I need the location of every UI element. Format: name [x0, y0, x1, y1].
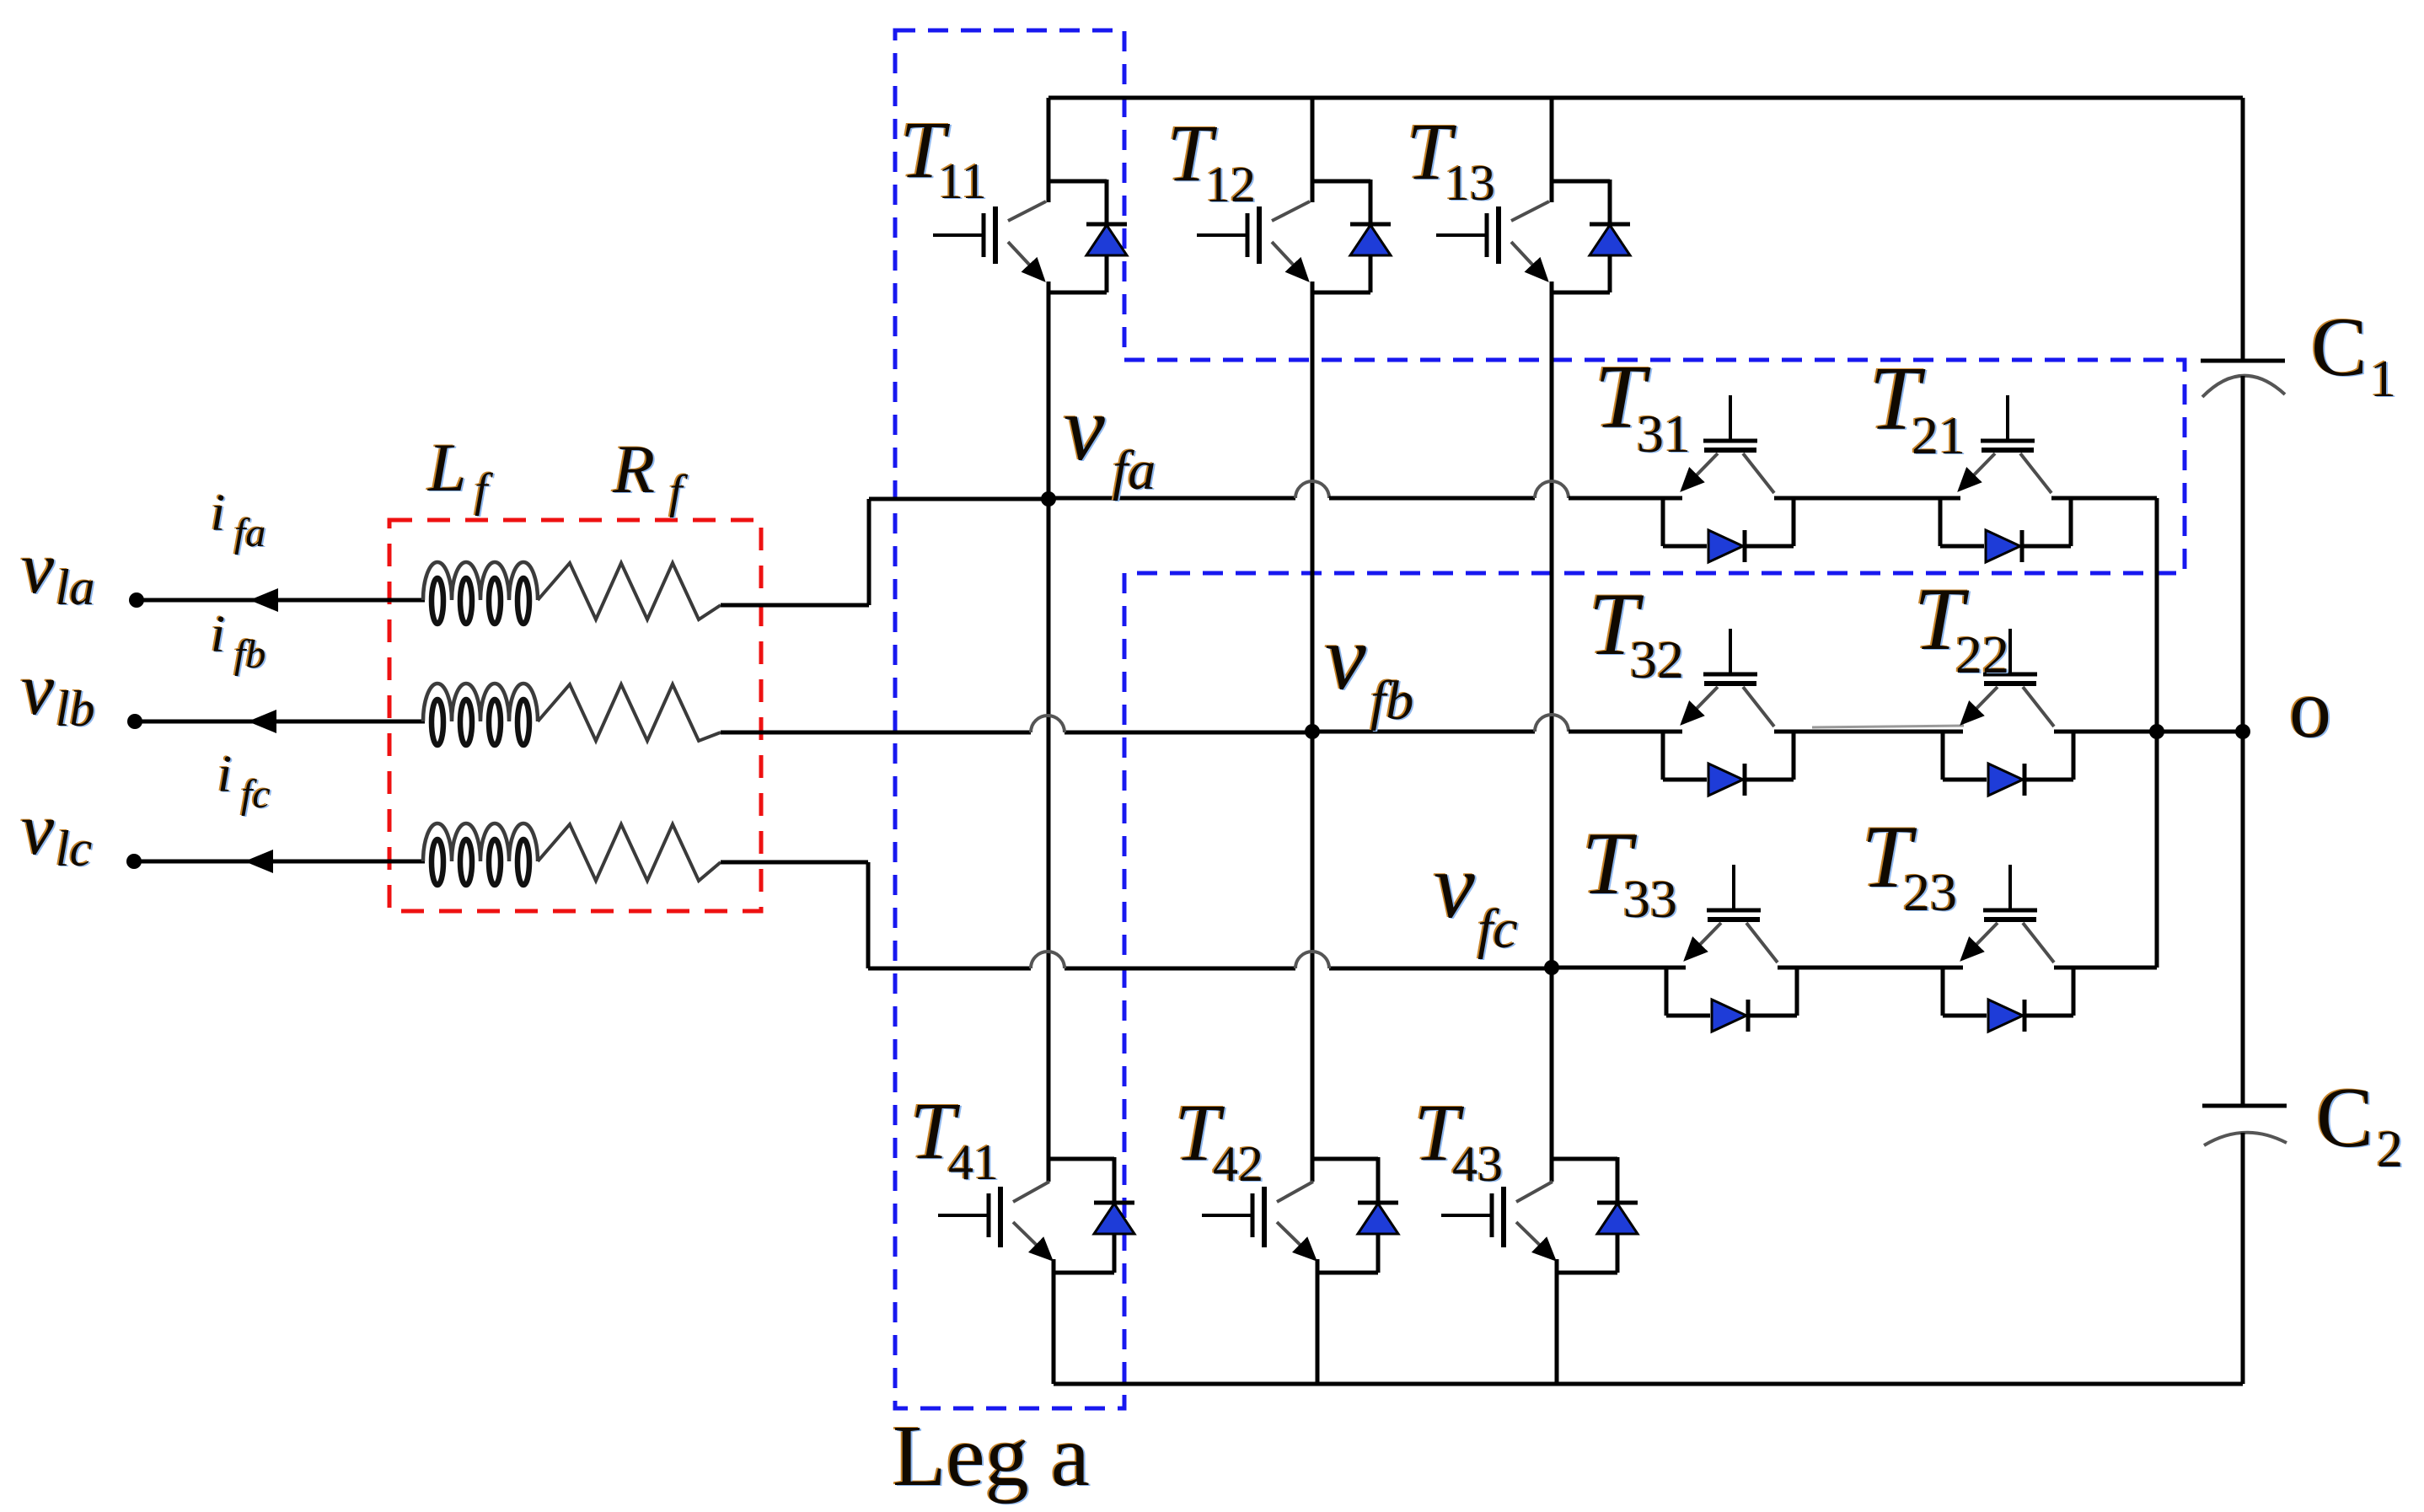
transistor T41 igbt body: [938, 1182, 1051, 1259]
transistor T31 body: [1682, 395, 1774, 493]
transistor T13 freewheeling diode: [1590, 224, 1630, 292]
transistor T11 igbt body: [933, 201, 1046, 280]
diode D32: [1708, 764, 1745, 796]
label v_fa: [1062, 376, 1157, 502]
transistor T21 body: [1960, 395, 2051, 493]
label L_f: [426, 428, 496, 517]
transistor T12 freewheeling diode: [1350, 224, 1391, 292]
label T31: [1593, 346, 1692, 464]
transistor T11 freewheeling diode: [1086, 224, 1127, 292]
wire right rail middle: [2241, 376, 2245, 1106]
diode D31: [1708, 530, 1745, 562]
wire phase c to vfc: [868, 967, 1545, 971]
wire phase a to vfa: [721, 499, 1048, 605]
node v_lb terminal: [127, 714, 142, 729]
node v_lc terminal: [126, 854, 142, 869]
wire T23 output to right column: [2054, 966, 2157, 970]
wire hop phase c over leg b: [1295, 952, 1329, 968]
node junction right column: [2149, 724, 2164, 739]
transistor T43 wire emitter join: [1557, 1271, 1617, 1275]
label T13: [1405, 105, 1497, 212]
wire T21 diode bracket: [1940, 498, 2071, 546]
node v_fc: [1544, 960, 1559, 975]
diode D21: [1986, 530, 2022, 562]
transistor T12 wire emitter join: [1312, 291, 1370, 295]
label T43: [1413, 1086, 1504, 1193]
transistor T42 wire collector stub: [1312, 1157, 1378, 1161]
label T11: [898, 104, 989, 210]
diode D23: [1988, 1000, 2024, 1032]
transistor T12 wire diode cathode lead: [1369, 180, 1373, 224]
transistor T23 body: [1962, 865, 2054, 962]
label node o: [2287, 661, 2333, 756]
wire phase a with current arrow: [143, 588, 425, 612]
transistor T41 freewheeling diode: [1094, 1203, 1134, 1273]
inductor Lf phase c: [423, 823, 538, 885]
transistor T11 wire diode cathode lead: [1105, 180, 1109, 224]
node v_fb: [1305, 724, 1320, 739]
transistor T13 igbt body: [1436, 201, 1549, 280]
transistor T13 wire collector drop: [1550, 98, 1554, 202]
node v_fa: [1041, 491, 1056, 507]
transistor T11 wire collector stub: [1048, 180, 1107, 184]
wire vfc row segment 1: [1552, 966, 1686, 970]
node v_la terminal: [129, 592, 144, 608]
transistor T42 igbt body: [1202, 1182, 1315, 1259]
label T21: [1868, 348, 1967, 466]
wire hop phase b over leg a: [1031, 716, 1065, 732]
resistor Rf phase b: [538, 684, 721, 741]
diode D22: [1988, 764, 2024, 796]
capacitor C1: [2201, 361, 2285, 397]
wire o row to rail: [2054, 730, 2243, 734]
wire right rail upper: [2241, 98, 2245, 361]
resistor Rf phase a: [538, 563, 721, 619]
wire T33 diode bracket: [1666, 968, 1797, 1016]
wire leg c emitter to vfc and T43: [1550, 281, 1554, 1182]
label C2: [2314, 1070, 2405, 1179]
wire bottom dc rail: [1054, 1382, 2243, 1386]
label v_lb: [19, 648, 97, 737]
wire hop phase c over leg a: [1031, 952, 1065, 968]
wire vfa row segment 2: [1329, 496, 1535, 501]
transistor T41 wire collector stub: [1048, 1157, 1114, 1161]
inductor Lf phase a: [423, 562, 538, 624]
transistor T42 wire emitter join: [1317, 1271, 1378, 1275]
label v_fc: [1432, 834, 1520, 961]
wire vfa row segment 4: [1774, 496, 1960, 501]
transistor T32 body: [1682, 629, 1774, 727]
transistor T41 wire emitter join: [1054, 1271, 1114, 1275]
label T33: [1580, 813, 1679, 930]
wire overlap artifact: [1812, 726, 1964, 727]
label T12: [1166, 107, 1258, 213]
blue dashed box Leg a with T31 T21 row extension: [895, 30, 2185, 1408]
label v_fb: [1323, 605, 1415, 732]
wire T22 diode bracket: [1943, 732, 2073, 780]
wire leg a bottom: [1052, 1259, 1056, 1384]
wire vfb row segment 3: [1774, 730, 1963, 734]
wire T32 diode bracket: [1663, 732, 1794, 780]
wire hop vfb row over leg c: [1535, 715, 1569, 732]
transistor T43 wire collector stub: [1552, 1157, 1617, 1161]
inductor Lf phase b: [423, 684, 538, 745]
label Leg a: [891, 1407, 1091, 1505]
label v_la: [19, 527, 97, 616]
label T22: [1912, 569, 2011, 685]
wire top dc rail: [1048, 96, 2243, 100]
wire vfa row segment 3: [1569, 496, 1682, 501]
wire T23 diode bracket: [1943, 968, 2073, 1016]
wire leg c bottom: [1555, 1259, 1559, 1384]
wire hop vfa row over leg c: [1535, 481, 1569, 498]
wire right column vertical: [2155, 498, 2159, 968]
transistor T13 wire collector stub: [1552, 180, 1610, 184]
wire hop vfa row over leg b: [1295, 481, 1329, 498]
wire phase c jog down: [721, 862, 868, 968]
transistor T12 wire collector stub: [1312, 180, 1370, 184]
transistor T42 freewheeling diode: [1358, 1203, 1398, 1273]
transistor T43 freewheeling diode: [1597, 1203, 1638, 1273]
wire phase b with current arrow: [142, 710, 425, 733]
transistor T43 igbt body: [1441, 1182, 1554, 1259]
resistor Rf phase c: [538, 824, 721, 881]
label i_fb: [209, 605, 267, 678]
wire leg a emitter to vfa and T41: [1047, 281, 1051, 1182]
label T32: [1587, 574, 1686, 690]
label T42: [1173, 1086, 1265, 1193]
wire phase c with current arrow: [141, 850, 425, 873]
capacitor C2: [2202, 1106, 2287, 1145]
wire leg b emitter to vfb and T42: [1311, 281, 1315, 1182]
wire T31 diode bracket: [1663, 498, 1794, 546]
transistor T33 body: [1686, 865, 1778, 962]
transistor T11 wire collector drop: [1047, 98, 1051, 202]
wire T21 output to right: [2051, 496, 2157, 501]
transistor T12 wire collector drop: [1311, 98, 1315, 202]
label i_fc: [216, 745, 272, 818]
label T23: [1860, 807, 1959, 923]
wire vfa row segment 1: [1048, 496, 1295, 501]
label T41: [909, 1085, 1000, 1191]
transistor T13 wire emitter join: [1552, 291, 1610, 295]
label C1: [2309, 299, 2398, 409]
transistor T22 body: [1962, 629, 2054, 727]
transistor T13 wire diode cathode lead: [1608, 180, 1612, 224]
transistor T42 wire diode cathode lead: [1376, 1157, 1381, 1203]
wire vfc row segment 2: [1778, 966, 1963, 970]
diode D33: [1712, 1000, 1748, 1032]
wire vfb row segment 1: [1312, 730, 1535, 734]
transistor T12 igbt body: [1197, 201, 1310, 280]
wire right rail lower: [2241, 1133, 2245, 1384]
red dashed box around output filter: [389, 520, 761, 911]
label i_fa: [209, 484, 267, 556]
wire leg b bottom: [1316, 1259, 1320, 1384]
label v_lc: [19, 788, 94, 877]
label R_f: [610, 430, 690, 519]
node o on rail: [2235, 724, 2250, 739]
wire phase b to vfb: [721, 731, 1306, 735]
transistor T43 wire diode cathode lead: [1616, 1157, 1620, 1203]
wire vfb row segment 2: [1569, 730, 1682, 734]
transistor T11 wire emitter join: [1048, 291, 1107, 295]
transistor T41 wire diode cathode lead: [1113, 1157, 1117, 1203]
